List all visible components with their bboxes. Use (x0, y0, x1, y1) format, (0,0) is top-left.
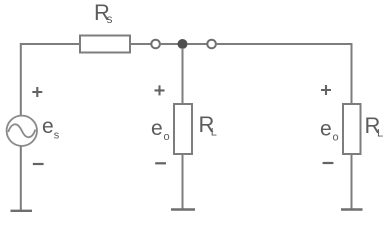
plus sign (middle branch) (155, 85, 165, 95)
wire: dot to terminal circle 2 (188, 43, 208, 45)
minus sign (right branch) (323, 162, 334, 164)
terminal circle 1 (open) (151, 40, 160, 49)
ground (right) (341, 208, 363, 210)
wire: RS to terminal circle 1 (130, 43, 152, 45)
wire: left vertical from top-left corner down to source (21, 44, 80, 116)
svg-text:o: o (164, 131, 170, 143)
minus sign (source, bottom) (33, 163, 44, 165)
ground (middle) (171, 208, 195, 210)
svg-text:s: s (107, 12, 113, 26)
resistor RL right (vertical box) (343, 104, 361, 154)
wire: junction dot down to middle resistor (182, 48, 184, 104)
minus sign (middle branch) (155, 162, 166, 164)
wire: circle 1 to junction dot (160, 43, 178, 45)
plus sign (right branch) (321, 85, 331, 95)
wire: right resistor to right ground (351, 154, 353, 209)
wire: source to left ground (20, 146, 22, 211)
resistor RL middle (vertical box) (174, 104, 192, 154)
svg-text:o: o (333, 132, 339, 144)
wire: circle 2 to top-right corner and down right branch (216, 44, 352, 104)
svg-text:e: e (151, 117, 163, 140)
junction node dot (filled) (178, 39, 188, 49)
svg-text:L: L (377, 128, 383, 140)
plus sign (source, top) (32, 87, 42, 97)
sine wave inside source (8, 124, 35, 137)
svg-text:e: e (320, 118, 332, 141)
wire: middle resistor to middle ground (182, 154, 184, 209)
ground (left) (11, 210, 33, 212)
terminal circle 2 (open) (207, 40, 216, 49)
svg-text:e: e (42, 115, 54, 138)
svg-text:L: L (211, 127, 217, 139)
resistor RS (horizontal box) (80, 36, 130, 53)
source es (AC source circle) (7, 116, 37, 146)
svg-text:s: s (54, 130, 60, 142)
